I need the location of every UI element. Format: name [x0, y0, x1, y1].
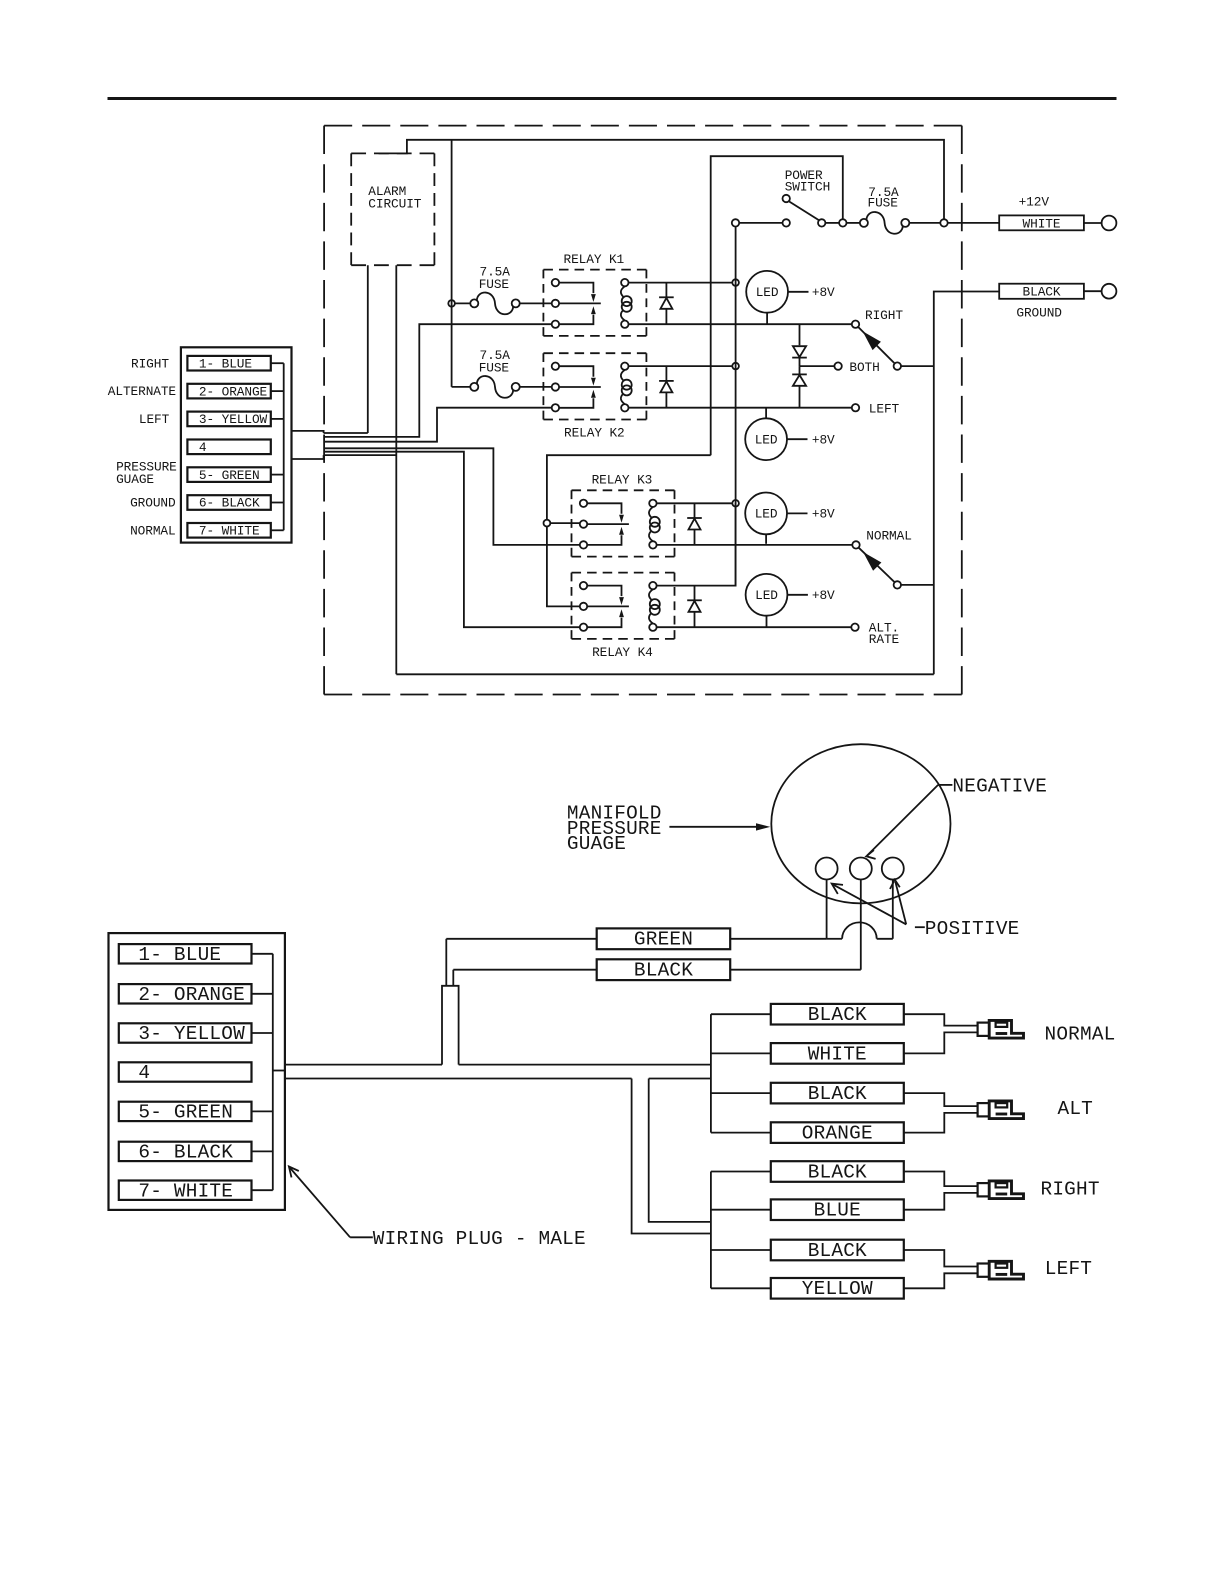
wire BLACK riser	[452, 970, 454, 986]
leader line POSITIVE to right terminal	[895, 882, 906, 925]
wire right terminal stem	[892, 880, 894, 939]
wire to WHITE label box 2	[711, 1052, 771, 1054]
svg-text:+8V: +8V	[812, 285, 835, 300]
svg-text:LEFT: LEFT	[1045, 1258, 1092, 1280]
panel connector outer box	[181, 347, 292, 542]
selector arrowhead normal-alt	[863, 552, 881, 571]
manifold pressure guage body	[771, 744, 950, 903]
harness cable bottom edge	[292, 455, 324, 459]
upper wire-group bus	[710, 1014, 712, 1132]
svg-text:6- BLACK: 6- BLACK	[199, 496, 260, 511]
power switch contact B	[818, 219, 825, 226]
wire +8V bus from switch node down	[735, 227, 737, 585]
wire pair to LEFT terminal	[904, 1250, 978, 1267]
svg-text:NORMAL: NORMAL	[130, 523, 175, 538]
relay K2 common contact	[552, 383, 559, 390]
relay K3 armature up-arrow	[619, 527, 624, 535]
wire pair to ALT terminal	[904, 1093, 978, 1106]
quick-disconnect terminal RIGHT	[978, 1183, 990, 1196]
wiring plug pin 1 stub	[252, 953, 273, 955]
node BOTH	[834, 362, 841, 369]
wire relay K1 coil to +8V bus junction	[629, 282, 732, 284]
wire harness A to alarm circuit	[324, 432, 368, 434]
relay K2 armature down-arrow	[591, 378, 596, 386]
svg-text:BLACK: BLACK	[808, 1161, 867, 1183]
svg-text:RATE: RATE	[869, 632, 900, 647]
svg-text:RELAY K3: RELAY K3	[592, 473, 653, 488]
BLACK wire label box	[999, 284, 1084, 299]
relay K3 NO contact	[580, 541, 587, 548]
harness cable top edge	[292, 431, 324, 433]
leader line NEGATIVE to center terminal	[938, 784, 952, 786]
junction relay K3 common feed	[544, 520, 551, 527]
svg-text:ALTERNATE: ALTERNATE	[108, 384, 177, 399]
page top rule	[108, 97, 1117, 100]
svg-text:4: 4	[138, 1062, 150, 1084]
panel connector pin 2 stub	[271, 390, 284, 392]
node LEFT	[852, 404, 859, 411]
wire riser to lower group B	[649, 1079, 711, 1222]
wire switch line to WHITE lead	[948, 222, 1000, 224]
LED D3 normal-indicator	[745, 493, 787, 535]
wire riser to lower group A	[632, 1079, 711, 1234]
selector arrowhead right-left	[863, 331, 881, 350]
svg-text:NORMAL: NORMAL	[866, 528, 911, 543]
wire diode tap to BOTH node	[800, 365, 835, 367]
svg-text:+12V: +12V	[1019, 195, 1050, 210]
wire relay K4 coil feed from bus	[657, 503, 736, 585]
wire harness D to relay K3 NO	[324, 448, 580, 545]
panel connector pin bus	[283, 363, 285, 530]
BLACK wire label box 7	[771, 1240, 904, 1261]
panel connector pin 5 stub	[271, 474, 284, 476]
svg-text:RIGHT: RIGHT	[131, 356, 169, 371]
relay K4 armature down-arrow	[619, 597, 624, 605]
relay K1 coil	[621, 279, 628, 286]
wire LEFT row relay K2 coil low side	[629, 407, 852, 409]
leader line POSITIVE fork	[915, 926, 925, 928]
BLACK wire label box 5	[771, 1161, 904, 1182]
wire BLACK box to harness	[453, 969, 596, 971]
svg-text:6- BLACK: 6- BLACK	[138, 1142, 233, 1164]
wire from alarm circuit top to +12V rail	[379, 140, 944, 219]
svg-text:CIRCUIT: CIRCUIT	[368, 196, 421, 211]
wire NORMAL row relay K3 coil low side	[657, 544, 853, 546]
wire to BLACK label box 1	[711, 1013, 771, 1015]
power switch contact A	[783, 219, 790, 226]
WHITE wire label box	[999, 215, 1084, 230]
svg-text:GROUND: GROUND	[1016, 305, 1062, 320]
panel connector pin 3 stub	[271, 418, 284, 420]
junction relay K1 coil feed	[732, 279, 739, 286]
relay K3 common contact	[580, 520, 587, 527]
svg-text:LED: LED	[755, 507, 778, 522]
junction relay K2 coil feed	[732, 363, 739, 370]
wiring plug pin 3 box	[119, 1023, 252, 1042]
svg-text:BOTH: BOTH	[849, 360, 879, 375]
steering diode D6	[799, 366, 801, 374]
svg-text:LEFT: LEFT	[139, 412, 170, 427]
svg-text:RELAY K1: RELAY K1	[564, 252, 625, 267]
svg-text:LED: LED	[755, 432, 778, 447]
wiring plug pin 3 stub	[252, 1032, 273, 1034]
relay K4 armature up-arrow	[619, 609, 624, 617]
relay K3 dashed enclosure	[572, 489, 675, 491]
svg-text:BLUE: BLUE	[814, 1200, 861, 1222]
wiring plug pin 5 box	[119, 1102, 252, 1121]
wire harness main run 1	[285, 1064, 442, 1066]
wire GREEN with hop over center stem	[827, 938, 843, 940]
svg-text:ORANGE: ORANGE	[802, 1123, 873, 1145]
wire GREEN riser	[445, 939, 447, 986]
wire center terminal stem	[860, 880, 862, 970]
svg-text:GROUND: GROUND	[130, 496, 176, 511]
steering diode D5	[799, 324, 801, 345]
relay K4 NO contact	[580, 624, 587, 631]
WHITE wire label box 2	[771, 1043, 904, 1064]
wiring plug pin bus	[272, 954, 274, 1190]
svg-text:3- YELLOW: 3- YELLOW	[199, 412, 268, 427]
relay K3 coil	[649, 500, 656, 507]
node ALT RATE	[851, 624, 858, 631]
svg-text:GUAGE: GUAGE	[567, 833, 626, 855]
wire alarm circuit lead A	[367, 265, 369, 433]
BLACK wire label box 1	[771, 1004, 904, 1025]
wire junction down to relay K4 common	[547, 527, 580, 607]
BLACK wire label box	[597, 959, 731, 980]
panel connector pin 6 box	[187, 495, 270, 510]
BLUE wire label box 6	[771, 1199, 904, 1220]
wire LED D4 cathode stem	[766, 616, 768, 628]
node BOTH pivot	[894, 362, 901, 369]
wire harness B to relay K1 NO	[324, 324, 552, 437]
wire WHITE box to terminal	[1084, 222, 1102, 224]
panel connector pin 5 box	[187, 467, 270, 482]
wiring plug pin 6 stub	[252, 1150, 273, 1152]
junction at +12V rail drop	[940, 219, 947, 226]
guage terminal positive left	[816, 858, 838, 880]
wire to ORANGE label box 4	[711, 1132, 771, 1134]
wire LED D2 to +8V	[787, 438, 808, 440]
svg-text:RIGHT: RIGHT	[1041, 1179, 1100, 1201]
power switch pivot	[783, 195, 790, 202]
wire ground bus bottom run	[396, 673, 934, 675]
svg-text:1- BLUE: 1- BLUE	[138, 944, 221, 966]
wiring plug pin 5 stub	[252, 1110, 273, 1112]
quick-disconnect terminal NORMAL	[978, 1023, 990, 1036]
svg-text:BLACK: BLACK	[808, 1004, 867, 1026]
svg-text:POSITIVE: POSITIVE	[925, 918, 1020, 940]
svg-text:GUAGE: GUAGE	[116, 472, 154, 487]
relay K1 armature up-arrow	[591, 306, 596, 314]
leader arrow to guage	[669, 826, 757, 828]
wiring plug outer box	[109, 933, 285, 1210]
relay K1 NC contact	[552, 279, 559, 286]
wire harness E to relay K4 NO	[324, 452, 580, 628]
wiring plug pin 2 box	[119, 984, 252, 1003]
wire ALT pivot to ground bus	[901, 584, 934, 586]
wiring plug pin 6 box	[119, 1142, 252, 1161]
svg-text:ALT: ALT	[1058, 1098, 1094, 1120]
relay K2 dashed enclosure	[543, 352, 646, 354]
svg-text:2- ORANGE: 2- ORANGE	[199, 384, 268, 399]
fuse F2 7.5A main	[455, 302, 471, 304]
relay K2 armature up-arrow	[591, 390, 596, 398]
wiring plug bus link	[273, 1070, 285, 1072]
svg-text:BLACK: BLACK	[1023, 285, 1061, 300]
wire left terminal stem	[826, 880, 828, 939]
node NORMAL	[852, 541, 859, 548]
GREEN wire label box	[597, 928, 731, 949]
wire inner rail from power switch box	[711, 156, 843, 455]
terminal ring ground	[1102, 284, 1117, 299]
svg-text:+8V: +8V	[812, 507, 835, 522]
svg-text:LED: LED	[755, 588, 778, 603]
wire ground riser to alarm circuit	[395, 265, 397, 674]
relay K3 NC contact	[580, 500, 587, 507]
svg-text:RELAY K4: RELAY K4	[592, 645, 653, 660]
wire BLACK lead to ground bus	[934, 292, 999, 675]
svg-text:7- WHITE: 7- WHITE	[138, 1180, 233, 1202]
wire harness F to ground bus	[324, 454, 397, 456]
junction relay K3 coil feed	[732, 500, 739, 507]
node ALT pivot	[894, 581, 901, 588]
junction fuse F2 tap	[448, 300, 455, 307]
node RIGHT	[852, 321, 859, 328]
leader arrow to wiring plug	[350, 1236, 373, 1238]
relay K1 common contact	[552, 300, 559, 307]
selector lever right-left	[858, 327, 894, 363]
svg-text:2- ORANGE: 2- ORANGE	[138, 984, 245, 1006]
wire LED D1 to +8V	[788, 291, 809, 293]
LED D2 left-indicator	[745, 418, 787, 460]
fuse F3 7.5A main	[452, 386, 471, 388]
panel connector pin 1 box	[187, 356, 270, 371]
svg-text:5- GREEN: 5- GREEN	[199, 468, 260, 483]
ORANGE wire label box 4	[771, 1122, 904, 1143]
wire RIGHT row relay K1 coil low side	[629, 323, 852, 325]
panel connector pin 2 box	[187, 384, 270, 399]
flyback diode of relay K1	[665, 283, 667, 298]
wire LED D2 anode stem	[765, 408, 767, 419]
relay K2 coil	[621, 363, 628, 370]
panel connector pin 7 stub	[271, 529, 284, 531]
wire pair to NORMAL terminal	[904, 1014, 978, 1025]
wire relay K3 coil to bus junction	[657, 502, 732, 504]
svg-text:LEFT: LEFT	[869, 402, 900, 417]
control unit dashed enclosure	[324, 125, 962, 127]
wire LED D3 cathode stem	[765, 534, 767, 544]
terminal ring +12V	[1102, 216, 1117, 231]
relay K2 NO contact	[552, 404, 559, 411]
wire +12V rail down to fuses	[451, 140, 453, 387]
svg-text:1- BLUE: 1- BLUE	[199, 356, 252, 371]
panel connector pin 3 box	[187, 412, 270, 427]
svg-text:FUSE: FUSE	[868, 195, 899, 210]
wiring plug pin 4 box	[119, 1062, 252, 1081]
svg-text:WHITE: WHITE	[1023, 216, 1061, 231]
relay K1 NO contact	[552, 321, 559, 328]
wire to BLUE label box 6	[711, 1209, 771, 1211]
selector lever normal-alt	[859, 548, 895, 583]
LED D4 alt-rate-indicator	[746, 574, 788, 616]
lower wire-group bus	[710, 1172, 712, 1289]
svg-text:FUSE: FUSE	[479, 360, 510, 375]
guage terminal positive right	[882, 858, 904, 880]
wire LED D4 to +8V	[787, 594, 808, 596]
svg-text:FUSE: FUSE	[479, 277, 510, 292]
quick-disconnect terminal ALT	[978, 1103, 990, 1116]
svg-text:3- YELLOW: 3- YELLOW	[138, 1023, 245, 1045]
wire harness main run 2	[285, 1078, 632, 1080]
LED D1 right-indicator	[746, 271, 788, 313]
relay K1 dashed enclosure	[543, 269, 646, 271]
wire BLACK box to center stem	[730, 969, 861, 971]
flyback diode of relay K2	[665, 366, 667, 381]
main +12V feed wire with switch node	[732, 219, 739, 226]
wire to YELLOW label box 8	[711, 1287, 771, 1289]
wire LED D3 to +8V	[787, 512, 808, 514]
YELLOW wire label box 8	[771, 1278, 904, 1299]
leader line POSITIVE to left terminal	[833, 885, 906, 925]
alarm circuit dashed box	[351, 152, 434, 154]
svg-text:+8V: +8V	[812, 432, 835, 447]
guage terminal negative center	[850, 858, 872, 880]
wire ALT RATE row relay K4 coil low side	[657, 626, 852, 628]
wire GREEN box to terminal stem	[730, 938, 826, 940]
svg-text:BLACK: BLACK	[634, 959, 693, 981]
panel connector pin 7 box	[187, 523, 270, 538]
wiring plug pin 1 box	[119, 944, 252, 963]
BLACK wire label box 3	[771, 1083, 904, 1104]
svg-text:BLACK: BLACK	[808, 1240, 867, 1262]
panel connector pin 4 box	[187, 440, 270, 455]
svg-text:WHITE: WHITE	[808, 1043, 867, 1065]
wire to BLACK label box 5	[711, 1171, 771, 1173]
svg-text:NEGATIVE: NEGATIVE	[952, 776, 1047, 798]
junction at inner rail	[839, 219, 846, 226]
wiring plug pin 7 stub	[252, 1189, 273, 1191]
svg-text:YELLOW: YELLOW	[802, 1278, 873, 1300]
wire to BLACK label box 7	[711, 1249, 771, 1251]
wire inner rail across to relay K3/K4 commons	[547, 455, 711, 519]
power switch lever	[789, 201, 819, 220]
svg-text:WIRING PLUG - MALE: WIRING PLUG - MALE	[373, 1228, 586, 1250]
flyback diode of relay K3	[694, 503, 696, 518]
wire BLACK box to terminal	[1084, 290, 1102, 292]
relay K4 NC contact	[580, 582, 587, 589]
relay K1 armature down-arrow	[591, 294, 596, 302]
relay K3 armature down-arrow	[619, 515, 624, 523]
svg-text:NORMAL: NORMAL	[1045, 1023, 1116, 1045]
svg-text:RIGHT: RIGHT	[865, 308, 903, 323]
quick-disconnect terminal LEFT	[978, 1264, 990, 1277]
wiring plug pin 7 box	[119, 1181, 252, 1200]
svg-text:BLACK: BLACK	[808, 1083, 867, 1105]
fuse F1 7.5A main	[860, 219, 868, 227]
wiring plug pin 2 stub	[252, 993, 273, 995]
wire LED D1 cathode stem	[766, 313, 768, 325]
panel connector pin 1 stub	[271, 362, 284, 364]
svg-text:+8V: +8V	[812, 588, 835, 603]
svg-text:LED: LED	[756, 285, 779, 300]
flyback diode of relay K4	[694, 586, 696, 601]
svg-text:RELAY K2: RELAY K2	[564, 425, 625, 440]
wire to BLACK label box 3	[711, 1092, 771, 1094]
svg-text:GREEN: GREEN	[634, 928, 693, 950]
relay K4 common contact	[580, 603, 587, 610]
wire GREEN box to harness	[446, 938, 596, 940]
wire relay K2 coil to bus junction	[629, 365, 732, 367]
svg-text:4: 4	[199, 440, 207, 455]
wire pair to RIGHT terminal	[904, 1172, 978, 1187]
relay K4 coil	[649, 582, 656, 589]
relay K4 dashed enclosure	[572, 572, 675, 574]
harness sheath to guage wires	[442, 986, 459, 1065]
wire harness C to relay K2 NO	[324, 408, 552, 442]
svg-text:7- WHITE: 7- WHITE	[199, 524, 260, 539]
panel connector pin 6 stub	[271, 502, 284, 504]
relay K2 NC contact	[552, 363, 559, 370]
svg-text:SWITCH: SWITCH	[785, 179, 830, 194]
svg-text:5- GREEN: 5- GREEN	[138, 1102, 233, 1124]
wire BOTH pivot to ground bus	[901, 365, 934, 367]
